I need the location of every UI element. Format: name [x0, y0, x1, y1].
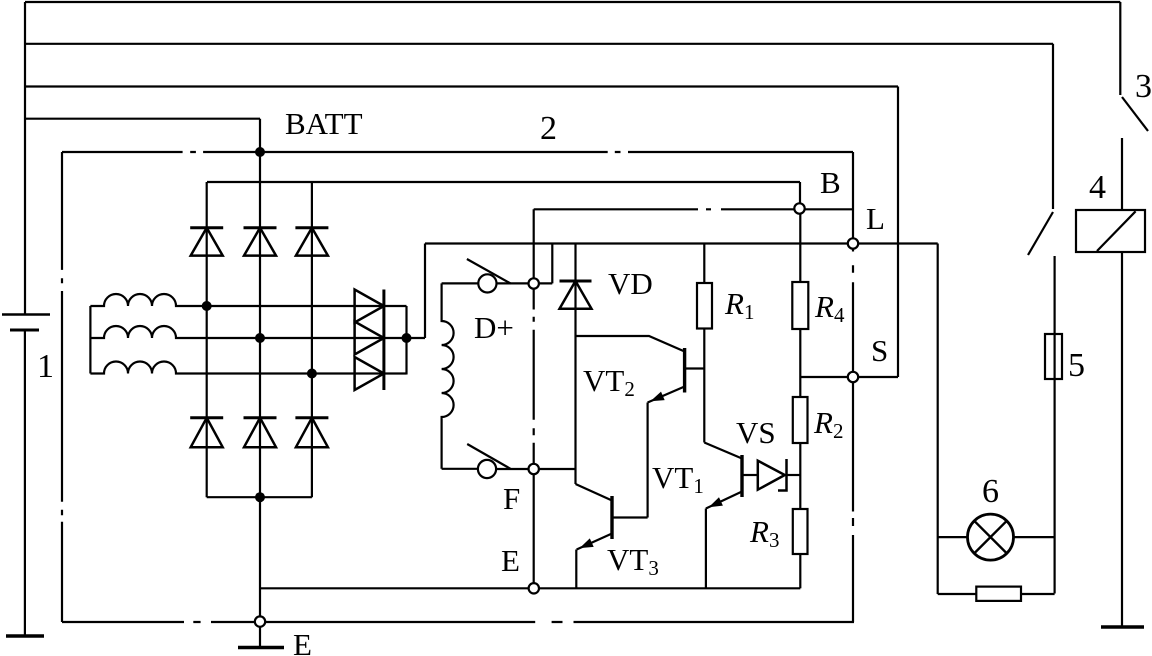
junction dot phase1 [202, 301, 212, 311]
diode triangle lower [244, 418, 276, 447]
terminal circle E inner [529, 583, 539, 593]
aux diode trio cathode bar [382, 290, 385, 391]
wire R2 bottom to VS node [799, 443, 801, 475]
wire outer box right edge dash-dot [852, 249, 854, 622]
diode bar [295, 226, 328, 229]
wire VT3 emitter to E line [575, 550, 577, 589]
stator winding phase 3 [90, 362, 384, 374]
wire D+ terminal to L [539, 244, 552, 284]
wire regulator box left edge dash-dot [533, 209, 535, 583]
transistor VT1 emitter arrow [710, 498, 722, 506]
diode triangle [244, 228, 276, 256]
relay K4 diagonal [1097, 211, 1136, 251]
wire R1 bottom to VT1 collector [703, 329, 705, 443]
stator winding phase 1 [90, 294, 384, 306]
wire switch 3 to relay 4 [1121, 138, 1123, 210]
ground battery bottom plate [6, 634, 44, 638]
wire D+ riser to L line [424, 244, 426, 339]
wire VT2 emitter to VT3 base [646, 403, 648, 518]
diode VD bar [560, 280, 592, 283]
svg-text:VD: VD [608, 266, 653, 301]
ground E plate [238, 646, 284, 650]
wire R3 bottom to E line [799, 554, 801, 588]
diode triangle [191, 228, 223, 256]
wire regulator box top B line dash-dot [534, 208, 853, 210]
wire field bottom lead [442, 468, 478, 470]
junction dot rectifier bottom [255, 492, 265, 502]
wire left vertical battery feed [24, 2, 26, 315]
fuse 5 body [1045, 334, 1062, 379]
svg-text:4: 4 [1089, 169, 1106, 206]
battery 1 negative plate [10, 329, 39, 332]
wire trio stub 1 [384, 305, 407, 307]
transistor VT3 emitter arrow [581, 539, 593, 547]
junction dot phase3 [307, 369, 317, 379]
wire trio collector vertical [405, 306, 407, 375]
switch 3 blade [1122, 97, 1148, 131]
transistor VT1 emitter [706, 492, 742, 509]
wire lamp feed [938, 536, 968, 538]
terminal circle E ground [255, 616, 265, 626]
brush top slash [467, 259, 511, 284]
junction dot BATT [255, 147, 265, 157]
svg-text:E: E [293, 627, 312, 656]
transistor VT3 bar [610, 496, 613, 539]
resistor lamp shunt [976, 587, 1021, 601]
wire switch 3b to fuse 5 [1053, 256, 1055, 594]
brush top circle [478, 274, 496, 292]
wire switch 3b feed from bus2 [1052, 44, 1054, 209]
svg-text:S: S [871, 333, 888, 368]
wire rectifier output top line [207, 181, 800, 183]
resistor R4 [792, 282, 808, 329]
transistor VT1 collector [704, 443, 742, 459]
wire R4 bottom to S [799, 329, 801, 377]
transistor VT3 collector [576, 484, 613, 501]
relay K4 coil box [1076, 210, 1145, 252]
svg-text:D+: D+ [474, 310, 514, 345]
aux diode trio triangle 3 [355, 357, 384, 390]
zener diode VS triangle [758, 461, 785, 490]
wire BATT down to L terminal [852, 152, 854, 238]
svg-text:BATT: BATT [285, 106, 363, 141]
wire bus2 [25, 43, 1053, 45]
diode triangle lower [191, 418, 223, 447]
wire resistor bottom branch [938, 593, 977, 595]
svg-text:5: 5 [1068, 347, 1085, 384]
terminal circle D+ [529, 278, 539, 288]
wire F terminal to regulator [539, 468, 576, 470]
svg-text:VS: VS [736, 415, 776, 450]
ground E lead [259, 627, 261, 648]
wire S line [800, 376, 898, 378]
wire VD cathode to L [574, 244, 576, 485]
diode VD triangle [560, 281, 592, 309]
ground right plate [1101, 625, 1144, 629]
wire lamp branch vertical from L [937, 244, 939, 595]
switch 3b blade [1028, 212, 1053, 255]
zener diode VS bar with bottom hook [778, 459, 787, 491]
transistor VT3 base wire [612, 516, 648, 518]
brush bottom circle [478, 460, 496, 478]
wire rectifier bottom join [207, 496, 312, 498]
wire BATT line dash-dot (outer box top) [62, 151, 853, 153]
diode bar [244, 226, 277, 229]
wire brush to F terminal [496, 468, 528, 470]
resistor R1 [697, 283, 712, 329]
wire resistor to fuse column [1021, 593, 1055, 595]
rectifier column 2 [259, 119, 261, 617]
transistor VT2 emitter [648, 387, 685, 403]
resistor R2 [793, 397, 808, 443]
svg-text:L: L [866, 201, 885, 236]
wire battery negative lead [24, 330, 26, 636]
junction dot phase2 [255, 333, 265, 343]
svg-text:R3: R3 [749, 514, 779, 552]
battery 1 positive plate [2, 313, 50, 315]
svg-text:VT1: VT1 [652, 460, 704, 498]
transistor VT2 emitter arrow [652, 393, 664, 401]
junction dot trio output [402, 333, 412, 343]
wire trio stub 2 to riser [384, 337, 425, 339]
svg-text:R4: R4 [814, 289, 845, 327]
wire bus4 [25, 118, 260, 120]
wire switch 3 upper feed [1119, 2, 1121, 95]
diode triangle [296, 228, 328, 256]
transistor VT3 emitter [577, 534, 612, 550]
wire bus3 [25, 85, 898, 87]
terminal circle F [529, 464, 539, 474]
aux diode trio triangle 1 [355, 290, 384, 323]
wire outer box bottom dash-dot [62, 621, 854, 623]
svg-text:F: F [503, 481, 520, 516]
svg-text:B: B [820, 165, 841, 200]
brush bottom slash [467, 444, 510, 469]
lamp 6 circle [968, 514, 1014, 560]
wire E line [260, 587, 800, 589]
stator winding phase 2 [90, 326, 384, 338]
transistor VT1 base wire [742, 474, 758, 476]
wire L line [425, 242, 938, 244]
svg-text:VT3: VT3 [607, 542, 659, 580]
svg-text:3: 3 [1135, 68, 1152, 105]
svg-text:R1: R1 [724, 286, 754, 324]
transistor VT2 bar [683, 348, 686, 393]
svg-text:6: 6 [982, 473, 999, 510]
wire B terminal to R4 [799, 214, 801, 282]
diode triangle lower [296, 418, 328, 447]
svg-text:1: 1 [37, 348, 54, 385]
wire VS node to R3 [799, 475, 801, 510]
resistor R3 [793, 509, 808, 554]
wire VS to divider [787, 474, 801, 476]
svg-text:E: E [501, 543, 520, 578]
wire lamp to fuse column [1014, 536, 1055, 538]
wire rectifier to B terminal [799, 182, 801, 203]
stator star vertical [89, 306, 91, 374]
svg-text:R2: R2 [813, 405, 843, 443]
wire S to R2 [799, 377, 801, 397]
wire bus3 down to S line [897, 87, 899, 378]
wire brush to D+ terminal [497, 282, 529, 284]
terminal circle B [794, 203, 804, 213]
wire field top lead [442, 282, 479, 284]
diode bar lower [244, 416, 277, 419]
rectifier column 3 [311, 182, 313, 497]
wire VT1 emitter to E line [705, 509, 707, 589]
diode bar lower [190, 416, 223, 419]
lamp 6 cross [974, 521, 1007, 554]
transistor VT2 base wire [685, 367, 705, 369]
terminal circle L [848, 238, 858, 248]
terminal circle S [848, 372, 858, 382]
diode bar lower [295, 416, 328, 419]
wire outer box left edge dash-dot [61, 152, 63, 622]
rectifier column 1 [206, 182, 208, 497]
wire R1 top [703, 244, 705, 284]
transistor VT1 bar [740, 455, 743, 497]
diode bar [190, 226, 223, 229]
svg-text:VT2: VT2 [583, 363, 635, 401]
wire relay 4 to ground [1121, 252, 1123, 627]
transistor VT2 collector [576, 336, 685, 352]
field winding rotor coil [442, 283, 454, 468]
wire trio stub 3 [384, 372, 407, 374]
aux diode trio triangle 2 [355, 322, 384, 355]
svg-text:2: 2 [540, 110, 557, 147]
wire bus1 top [25, 1, 1120, 3]
